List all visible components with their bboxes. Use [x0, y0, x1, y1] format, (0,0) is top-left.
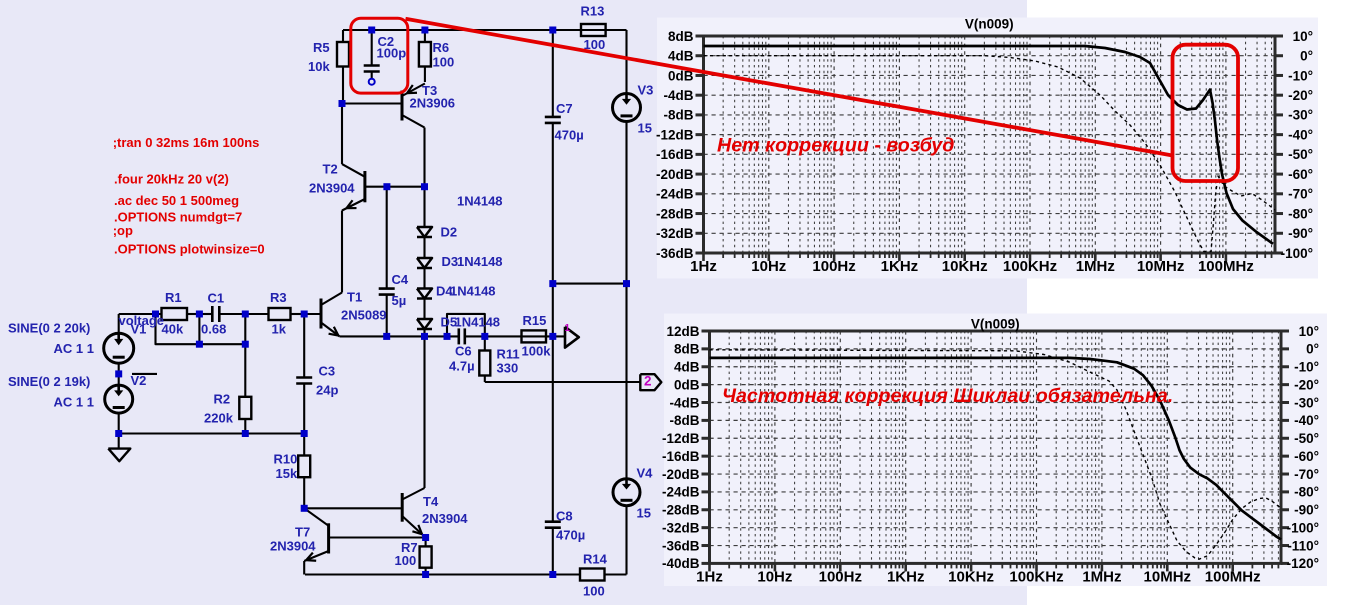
- svg-text:V(n009): V(n009): [971, 317, 1020, 332]
- svg-text:-50°: -50°: [1294, 431, 1319, 446]
- svg-text:-40dB: -40dB: [662, 556, 700, 571]
- svg-text:;tran 0 32ms 16m 100ns: ;tran 0 32ms 16m 100ns: [113, 135, 260, 150]
- svg-text:-60°: -60°: [1294, 449, 1319, 464]
- svg-text:.OPTIONS numdgt=7: .OPTIONS numdgt=7: [114, 210, 242, 225]
- svg-text:R11: R11: [497, 346, 520, 361]
- svg-text:-70°: -70°: [1288, 187, 1313, 202]
- svg-text:-90°: -90°: [1294, 503, 1319, 518]
- svg-text:V2: V2: [131, 373, 147, 388]
- svg-text:10KHz: 10KHz: [948, 569, 994, 586]
- svg-text:1k: 1k: [272, 321, 287, 336]
- svg-text:10MHz: 10MHz: [1144, 569, 1192, 586]
- svg-text:Нет коррекции - возбуд: Нет коррекции - возбуд: [717, 135, 954, 157]
- svg-text:-80°: -80°: [1294, 485, 1319, 500]
- svg-text:-20°: -20°: [1288, 88, 1313, 103]
- svg-text:1Hz: 1Hz: [690, 258, 717, 275]
- svg-text:SINE(0 2 19k): SINE(0 2 19k): [8, 374, 90, 389]
- svg-text:100Hz: 100Hz: [819, 569, 862, 586]
- svg-text:-24dB: -24dB: [656, 187, 694, 202]
- svg-text:1MHz: 1MHz: [1076, 258, 1115, 275]
- svg-text:100: 100: [433, 54, 455, 69]
- svg-text:10Hz: 10Hz: [757, 569, 792, 586]
- svg-text:-100°: -100°: [1281, 246, 1313, 261]
- svg-text:10k: 10k: [308, 59, 330, 74]
- svg-text:C8: C8: [556, 508, 573, 523]
- svg-text:4dB: 4dB: [674, 360, 700, 375]
- svg-text:V1: V1: [131, 321, 147, 336]
- svg-text:100KHz: 100KHz: [1003, 258, 1057, 275]
- svg-text:15: 15: [637, 505, 651, 520]
- svg-text:R2: R2: [214, 391, 231, 406]
- svg-text:8dB: 8dB: [668, 29, 694, 44]
- svg-text:Частотная коррекция Шиклаи обя: Частотная коррекция Шиклаи обязательна.: [722, 385, 1173, 407]
- svg-text:1KHz: 1KHz: [887, 569, 925, 586]
- svg-text:100k: 100k: [522, 343, 552, 358]
- svg-text:-90°: -90°: [1288, 226, 1313, 241]
- svg-text:-8dB: -8dB: [670, 413, 700, 428]
- svg-text:1: 1: [565, 323, 571, 334]
- svg-text:24p: 24p: [316, 382, 338, 397]
- svg-text:-36dB: -36dB: [656, 246, 694, 261]
- svg-text:12dB: 12dB: [666, 324, 699, 339]
- svg-text:-120°: -120°: [1287, 556, 1319, 571]
- svg-text:.four 20kHz 20 v(2): .four 20kHz 20 v(2): [114, 172, 229, 187]
- svg-text:0°: 0°: [1306, 342, 1319, 357]
- svg-text:1N4148: 1N4148: [457, 193, 503, 208]
- svg-text:D2: D2: [441, 224, 458, 239]
- svg-text:-28dB: -28dB: [656, 206, 694, 221]
- svg-text:-4dB: -4dB: [670, 395, 700, 410]
- svg-text:;op: ;op: [113, 223, 133, 238]
- svg-text:0dB: 0dB: [674, 377, 700, 392]
- svg-text:100Hz: 100Hz: [812, 258, 855, 275]
- svg-text:100MHz: 100MHz: [1205, 569, 1261, 586]
- svg-text:V3: V3: [638, 82, 654, 97]
- svg-text:D3: D3: [442, 254, 459, 269]
- svg-text:2N3906: 2N3906: [410, 95, 456, 110]
- svg-text:-16dB: -16dB: [656, 147, 694, 162]
- svg-text:T2: T2: [323, 161, 338, 176]
- svg-text:1KHz: 1KHz: [881, 258, 919, 275]
- svg-text:-10°: -10°: [1294, 360, 1319, 375]
- svg-text:2: 2: [644, 374, 652, 389]
- svg-text:1N4148: 1N4148: [457, 254, 503, 269]
- svg-text:R14: R14: [583, 551, 608, 566]
- svg-text:-32dB: -32dB: [656, 226, 694, 241]
- svg-text:1MHz: 1MHz: [1082, 569, 1121, 586]
- svg-text:SINE(0 2 20k): SINE(0 2 20k): [8, 320, 90, 335]
- svg-text:R6: R6: [433, 40, 450, 55]
- svg-text:10Hz: 10Hz: [751, 258, 786, 275]
- svg-text:-100°: -100°: [1287, 520, 1319, 535]
- svg-text:AC 1 1: AC 1 1: [54, 394, 94, 409]
- svg-text:R1: R1: [165, 290, 182, 305]
- svg-text:-32dB: -32dB: [662, 520, 700, 535]
- svg-text:-20dB: -20dB: [662, 467, 700, 482]
- svg-text:4dB: 4dB: [668, 49, 694, 64]
- svg-text:1Hz: 1Hz: [696, 569, 723, 586]
- svg-text:R15: R15: [523, 313, 547, 328]
- svg-text:15: 15: [638, 120, 652, 135]
- svg-text:100KHz: 100KHz: [1009, 569, 1063, 586]
- svg-text:-30°: -30°: [1288, 108, 1313, 123]
- svg-text:10°: 10°: [1293, 29, 1313, 44]
- svg-text:40k: 40k: [162, 321, 184, 336]
- svg-text:100p: 100p: [377, 45, 407, 60]
- svg-text:100: 100: [395, 553, 417, 568]
- svg-text:R10: R10: [274, 451, 298, 466]
- svg-text:C6: C6: [455, 343, 472, 358]
- svg-text:1N4148: 1N4148: [450, 283, 496, 298]
- svg-text:-10°: -10°: [1288, 68, 1313, 83]
- svg-text:V(n009): V(n009): [965, 17, 1014, 32]
- svg-text:2N3904: 2N3904: [270, 538, 316, 553]
- svg-text:-60°: -60°: [1288, 167, 1313, 182]
- svg-text:-8dB: -8dB: [664, 108, 694, 123]
- svg-text:.ac dec 50 1 500meg: .ac dec 50 1 500meg: [114, 193, 239, 208]
- svg-text:C3: C3: [319, 363, 336, 378]
- svg-text:-20dB: -20dB: [656, 167, 694, 182]
- svg-text:2N3904: 2N3904: [422, 511, 468, 526]
- svg-text:-12dB: -12dB: [662, 431, 700, 446]
- svg-text:.OPTIONS plotwinsize=0: .OPTIONS plotwinsize=0: [114, 242, 265, 257]
- svg-text:-12dB: -12dB: [656, 127, 694, 142]
- svg-text:100MHz: 100MHz: [1198, 258, 1254, 275]
- svg-text:10MHz: 10MHz: [1137, 258, 1185, 275]
- svg-text:0°: 0°: [1300, 49, 1313, 64]
- svg-text:5µ: 5µ: [392, 293, 407, 308]
- svg-text:10KHz: 10KHz: [942, 258, 988, 275]
- svg-text:100: 100: [583, 583, 605, 598]
- svg-text:-40°: -40°: [1288, 127, 1313, 142]
- svg-text:-20°: -20°: [1294, 377, 1319, 392]
- svg-text:C1: C1: [208, 290, 225, 305]
- svg-text:-30°: -30°: [1294, 395, 1319, 410]
- svg-text:470µ: 470µ: [556, 527, 585, 542]
- svg-text:-36dB: -36dB: [662, 538, 700, 553]
- svg-text:-70°: -70°: [1294, 467, 1319, 482]
- svg-text:-110°: -110°: [1287, 538, 1319, 553]
- svg-text:T7: T7: [295, 524, 310, 539]
- svg-text:R3: R3: [270, 290, 287, 305]
- svg-text:15k: 15k: [276, 466, 298, 481]
- svg-text:2N3904: 2N3904: [309, 180, 355, 195]
- svg-text:AC 1 1: AC 1 1: [54, 341, 94, 356]
- svg-text:10°: 10°: [1299, 324, 1319, 339]
- svg-text:0.68: 0.68: [201, 321, 226, 336]
- svg-text:2N5089: 2N5089: [341, 307, 387, 322]
- svg-text:-4dB: -4dB: [664, 88, 694, 103]
- svg-text:R5: R5: [313, 40, 330, 55]
- svg-text:-80°: -80°: [1288, 206, 1313, 221]
- svg-text:470µ: 470µ: [555, 127, 584, 142]
- svg-text:8dB: 8dB: [674, 342, 700, 357]
- svg-text:V4: V4: [637, 465, 654, 480]
- svg-text:-50°: -50°: [1288, 147, 1313, 162]
- svg-text:330: 330: [497, 360, 519, 375]
- svg-text:-40°: -40°: [1294, 413, 1319, 428]
- svg-text:C7: C7: [556, 101, 573, 116]
- svg-text:4.7µ: 4.7µ: [449, 358, 475, 373]
- svg-text:T1: T1: [347, 289, 362, 304]
- svg-text:-16dB: -16dB: [662, 449, 700, 464]
- svg-text:C4: C4: [392, 272, 409, 287]
- svg-text:-24dB: -24dB: [662, 485, 700, 500]
- svg-text:1N4148: 1N4148: [455, 314, 501, 329]
- svg-text:220k: 220k: [204, 410, 234, 425]
- svg-text:R13: R13: [581, 3, 605, 18]
- svg-text:-28dB: -28dB: [662, 503, 700, 518]
- svg-text:T4: T4: [423, 494, 439, 509]
